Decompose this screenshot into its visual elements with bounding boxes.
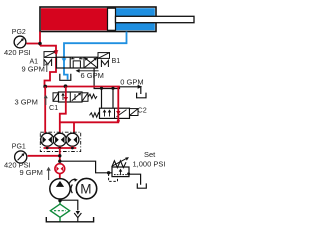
relief valve spring bbox=[112, 161, 126, 168]
svg-text:PG1: PG1 bbox=[12, 144, 26, 151]
valve C1 body bbox=[59, 92, 83, 102]
wire red pressure bus bbox=[45, 86, 120, 88]
valve C1 spring bbox=[88, 94, 97, 98]
wire blue rod-side: cylinder to valve B1 bbox=[64, 32, 127, 80]
node relief inlet bbox=[107, 171, 110, 174]
valve C2 right solenoid bbox=[130, 109, 139, 116]
cylinder piston bbox=[108, 8, 116, 30]
svg-text:9 GPM: 9 GPM bbox=[22, 65, 45, 74]
pump P1 bbox=[50, 179, 70, 199]
cylinder CYL1 body bbox=[40, 7, 194, 32]
tank for relief valve bbox=[137, 183, 146, 188]
cylinder rod bbox=[116, 16, 195, 22]
node pump column upper bbox=[58, 154, 61, 157]
relief valve RV1 body bbox=[112, 167, 129, 177]
wire filter to reservoir bbox=[59, 217, 61, 221]
rotation arrow bbox=[69, 179, 76, 183]
node pump column lower bbox=[58, 160, 61, 163]
reservoir bbox=[46, 217, 93, 222]
valve C1 position marks bbox=[61, 93, 64, 100]
flow arrow blue down on B-line bbox=[62, 58, 67, 62]
valve B1 center position symbol bbox=[71, 57, 83, 68]
svg-text:B1: B1 bbox=[112, 56, 121, 65]
wire red bus down to PG1 area bbox=[44, 87, 46, 134]
svg-text:1,000 PSI: 1,000 PSI bbox=[133, 159, 166, 168]
gauge PG2 bbox=[14, 36, 26, 48]
svg-text:0 GPM: 0 GPM bbox=[120, 78, 143, 87]
svg-text:C2: C2 bbox=[138, 106, 147, 115]
node T-line at C2 A-line bbox=[100, 87, 103, 90]
flow divider enclosure (dash-dot) bbox=[40, 132, 80, 151]
svg-text:420 PSI: 420 PSI bbox=[4, 48, 31, 57]
filter F1 bbox=[50, 204, 69, 217]
check valve to tank bbox=[74, 211, 81, 222]
svg-text:3 GPM: 3 GPM bbox=[15, 98, 38, 107]
label 6 GPM with left arrow bbox=[76, 69, 99, 73]
svg-text:6 GPM: 6 GPM bbox=[81, 71, 104, 80]
wire red through valve C2 down bbox=[60, 87, 119, 123]
wires red section outlets bbox=[47, 146, 72, 148]
wire black pump outlet to relief valve bbox=[60, 161, 112, 173]
flow arrow red down in C1 bbox=[64, 97, 68, 101]
wire black T-line to valve C2 divider bbox=[112, 89, 114, 109]
wire black branch to check valve bbox=[60, 200, 78, 210]
svg-text:C1: C1 bbox=[49, 103, 58, 112]
flow arrow red down in C2 bbox=[116, 111, 120, 115]
valve C2 spring bbox=[90, 113, 100, 117]
svg-text:Set: Set bbox=[144, 150, 156, 159]
node relief outlet bbox=[127, 172, 130, 175]
wire black T-line to valve C2 port bbox=[101, 89, 103, 109]
wire relief outlet to tank bbox=[129, 174, 141, 185]
flow indicator arrow up (pump 9 GPM) bbox=[46, 167, 50, 180]
tank under valve B1 bbox=[60, 74, 71, 81]
node T-line at C2 divider line bbox=[111, 87, 114, 90]
flow indicator arrow up (3 GPM) bbox=[44, 95, 48, 105]
valve B1 left manual override M bbox=[44, 59, 52, 66]
valve C2 body bbox=[100, 108, 130, 118]
relief valve adjust arrow bbox=[112, 157, 130, 166]
valve C1 right solenoid bbox=[82, 93, 88, 102]
node collector 1 bbox=[46, 147, 49, 150]
node bus at tank column bbox=[64, 84, 68, 88]
tank for 0 GPM line bbox=[137, 93, 146, 98]
wire red collector to meter bbox=[59, 148, 61, 163]
wire black B1 T-port to 0 GPM tank bbox=[94, 68, 141, 95]
svg-text:PG2: PG2 bbox=[12, 29, 26, 36]
valve C1 left solenoid bbox=[53, 93, 59, 102]
node collector 3 bbox=[71, 147, 74, 150]
flow divider section 3 bbox=[66, 133, 79, 146]
wire red cap-side: cylinder to gauge tee bbox=[26, 32, 40, 46]
flow divider section 1 bbox=[41, 133, 54, 146]
valve B1 body bbox=[57, 57, 98, 68]
svg-text:M: M bbox=[80, 182, 91, 197]
wire red collector bus bbox=[44, 147, 77, 149]
valve B1 right solenoid bbox=[98, 53, 110, 59]
wire red through valve C1 down bbox=[60, 87, 66, 134]
flow meter (red) above pump bbox=[55, 164, 65, 174]
wire red PG1 link bbox=[28, 155, 60, 157]
node red at solenoid corner bbox=[55, 51, 58, 54]
node cap-line tee bbox=[38, 42, 42, 46]
cylinder blue rod-side fluid bbox=[116, 8, 155, 30]
valve B1 left solenoid bbox=[44, 52, 56, 58]
valve C1 arrow position bbox=[72, 93, 81, 101]
flow indicator arrow up (A1) bbox=[45, 62, 49, 72]
pilot line (dashed) bbox=[109, 174, 118, 182]
flow arrow right 0 GPM bbox=[138, 85, 143, 89]
valve B1 crossed position symbol bbox=[85, 58, 97, 68]
valve C2 position arrows bbox=[103, 109, 112, 116]
flow divider section 2 bbox=[53, 133, 66, 146]
flow arrow red down on A-line bbox=[54, 50, 59, 54]
svg-text:9 GPM: 9 GPM bbox=[20, 168, 43, 177]
node collector 2 bbox=[58, 147, 61, 150]
gauge PG1 bbox=[15, 151, 27, 163]
wire red meter to pump bbox=[59, 174, 61, 180]
valve C2 crossed arrow in box2 bbox=[117, 110, 127, 117]
cylinder cap-side red fluid bbox=[41, 8, 108, 30]
wire red drop to divider section 3 bbox=[73, 122, 75, 134]
node pump inlet bbox=[58, 199, 61, 202]
node red below C2 bbox=[117, 119, 120, 122]
wire red cap-side to valve B1 A-port bbox=[40, 46, 56, 87]
coupling arcs bbox=[71, 185, 72, 194]
wire pump inlet down bbox=[59, 199, 61, 204]
electric motor M1 bbox=[76, 178, 96, 198]
node bus left bbox=[43, 85, 47, 89]
valve B1 right manual override M bbox=[101, 60, 108, 67]
